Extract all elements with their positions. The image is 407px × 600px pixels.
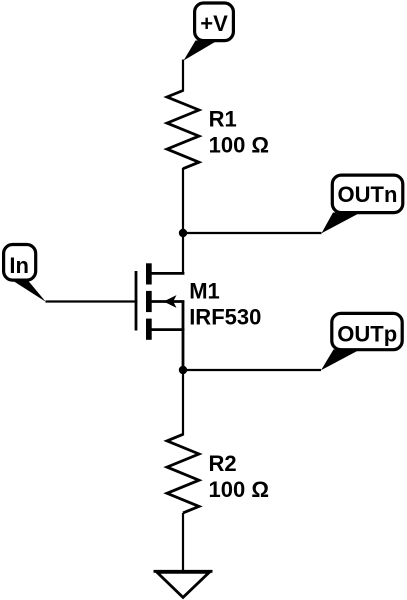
svg-text:R1: R1	[209, 106, 237, 131]
wire node B to OUTp flag	[183, 369, 321, 371]
resistor R2	[167, 434, 269, 513]
svg-text:In: In	[9, 253, 29, 278]
svg-text:OUTp: OUTp	[337, 321, 397, 346]
svg-text:IRF530: IRF530	[189, 304, 261, 329]
wire node A to OUTn flag	[183, 232, 322, 234]
wire R2 to ground	[182, 513, 184, 571]
wire In flag to gate	[46, 300, 138, 302]
flag OUTn	[322, 175, 403, 233]
resistor R1	[167, 91, 269, 169]
svg-text:100 Ω: 100 Ω	[209, 133, 269, 158]
svg-text:R2: R2	[209, 451, 237, 476]
svg-text:OUTn: OUTn	[338, 182, 398, 207]
svg-text:M1: M1	[189, 278, 220, 303]
wire node A to drain	[182, 233, 184, 273]
wire R1 to node A	[182, 168, 184, 233]
wire +V to R1	[182, 60, 184, 92]
ground	[154, 571, 213, 597]
svg-text:+V: +V	[200, 11, 228, 36]
node A (OUTn junction)	[179, 229, 187, 237]
transistor M1	[136, 263, 261, 370]
wire node B to R2	[182, 370, 184, 436]
flag In	[4, 245, 46, 302]
flag OUTp	[321, 313, 402, 370]
node B (OUTp junction)	[179, 366, 187, 374]
power flag +V	[184, 3, 234, 61]
svg-text:100 Ω: 100 Ω	[209, 477, 269, 502]
